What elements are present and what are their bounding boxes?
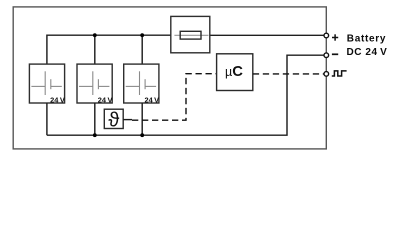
wire battery 2 bottom lead: [94, 103, 96, 135]
svg-text:24 V: 24 V: [98, 95, 113, 104]
node junction dot bottom bus battery 2: [93, 133, 97, 137]
wire bottom bus to minus terminal: [47, 55, 324, 135]
battery G1 cell symbol: [31, 71, 61, 95]
signal square wave icon: [332, 71, 347, 76]
wire battery 1 bottom lead: [46, 103, 48, 135]
plus sign: [332, 34, 338, 40]
svg-text:ϑ: ϑ: [108, 110, 119, 132]
wire fuse box to + terminal: [210, 34, 324, 36]
node junction dot top bus battery 2: [93, 33, 97, 37]
wire dashed theta to microcontroller: [132, 74, 217, 121]
terminal - DC 24 V: [324, 53, 329, 58]
wire through fuse (light): [174, 34, 208, 36]
wire battery 3 bottom lead: [141, 103, 143, 135]
svg-text:24 V: 24 V: [50, 95, 65, 104]
wire dashed microcontroller to signal terminal: [253, 73, 324, 75]
wire battery 3 top lead: [141, 35, 143, 64]
battery G2 cell symbol: [79, 71, 109, 95]
wire top bus from battery 1 to fuse box: [47, 35, 171, 64]
fuse enclosure box: [171, 16, 210, 52]
battery G3 box: [124, 64, 159, 103]
battery G1 box: [29, 64, 64, 103]
terminal signal output: [324, 72, 329, 77]
microcontroller U1 box: [217, 54, 253, 91]
svg-text:DC 24 V: DC 24 V: [347, 47, 388, 58]
svg-text:24 V: 24 V: [144, 95, 159, 104]
enclosure outer box: [13, 7, 326, 149]
minus sign: [332, 53, 338, 55]
terminal + Battery: [324, 33, 329, 38]
wire theta sensor stub: [123, 119, 132, 121]
svg-text:Battery: Battery: [347, 34, 386, 45]
svg-text:µC: µC: [225, 64, 243, 80]
wire battery 2 top lead: [94, 35, 96, 64]
node junction dot bottom bus battery 3: [140, 133, 144, 137]
battery G3 cell symbol: [126, 71, 156, 95]
node junction dot top bus battery 3: [140, 33, 144, 37]
battery G2 box: [77, 64, 112, 103]
fuse F1: [180, 31, 201, 39]
temperature sensor theta box: [104, 109, 123, 128]
